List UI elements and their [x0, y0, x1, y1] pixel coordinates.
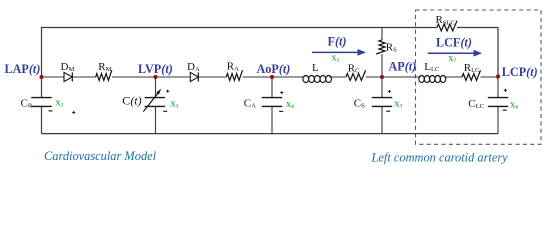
capacitor C_A	[262, 97, 282, 99]
wire: bottom rail	[42, 133, 499, 135]
diode D_M	[64, 72, 72, 81]
C_A plus	[280, 92, 283, 94]
C_A minus	[279, 110, 283, 112]
C(t) minus	[163, 110, 167, 112]
svg-text:C(t): C(t)	[122, 94, 141, 108]
C_LC minus	[503, 109, 507, 111]
wire: R_M to LVP to D_A	[112, 76, 190, 78]
C(t) plus	[166, 90, 169, 92]
wire: R_S top lead	[381, 28, 383, 41]
wire: AoP node down to C_A	[271, 77, 273, 98]
svg-text:F(t): F(t)	[328, 34, 347, 48]
wire: main row LAP to D_M	[42, 76, 65, 78]
wire: AP node down to C_S	[381, 77, 383, 98]
node LAP	[39, 75, 43, 79]
diode D_A	[190, 72, 198, 81]
resistor R_M	[96, 70, 112, 80]
flow arrow LCF(t)	[428, 52, 475, 54]
svg-text:LCF(t): LCF(t)	[436, 35, 472, 49]
C_LC plus	[504, 89, 507, 91]
node LCP	[496, 74, 500, 78]
wire: R_A to AoP to L	[243, 76, 305, 78]
wire: L_LC to R_LC	[444, 76, 462, 78]
wire: D_A to R_A	[198, 76, 226, 78]
wire: LCP node down to C_LC	[497, 77, 499, 98]
resistor R_C	[346, 70, 366, 80]
node AoP	[270, 75, 274, 79]
inductor L_LC	[419, 76, 425, 83]
svg-text:Cardiovascular Model: Cardiovascular Model	[44, 149, 157, 163]
svg-text:AoP(t): AoP(t)	[257, 62, 291, 76]
inductor L	[303, 76, 309, 83]
wire: D_M to R_M	[72, 76, 95, 78]
resistor R_A	[226, 70, 242, 80]
svg-text:AP(t): AP(t)	[389, 59, 417, 73]
C_R minus	[49, 110, 53, 112]
C_R plus	[72, 111, 75, 113]
capacitor C_S	[372, 97, 392, 99]
capacitor C_LC	[488, 97, 508, 99]
C_S minus	[386, 110, 390, 112]
variable capacitor C(t)	[145, 97, 165, 99]
capacitor C_R	[31, 97, 51, 99]
svg-text:LAP(t): LAP(t)	[5, 62, 41, 76]
resistor R_LC	[462, 70, 480, 80]
wire: R_S bottom lead to AP node	[381, 54, 383, 77]
wire: top rail right of R_SLC, corner down to LCP node	[457, 28, 498, 78]
wire: LVP node down to C(t)	[155, 77, 157, 98]
node AP	[380, 75, 384, 79]
svg-text:LVP(t): LVP(t)	[138, 62, 173, 76]
resistor R_SLC (top rail)	[437, 21, 457, 31]
wire: C_R bottom to bottom rail	[41, 106, 43, 133]
wire: left branch below LAP node to C_R	[41, 77, 43, 98]
flow arrow F(t)	[312, 51, 359, 53]
wire: R_C to AP to L_LC	[366, 76, 421, 78]
svg-text:L: L	[312, 62, 319, 74]
wire: L to R_C	[329, 76, 346, 78]
svg-text:Left common carotid artery: Left common carotid artery	[371, 151, 509, 165]
svg-text:LCP(t): LCP(t)	[502, 65, 538, 79]
C(t) arrow	[143, 93, 158, 111]
resistor R_S (vertical)	[376, 40, 385, 54]
C_S plus	[388, 90, 391, 92]
wire: R_LC to LCP node	[481, 76, 499, 78]
dashed box: Left common carotid artery region	[416, 10, 542, 144]
node LVP	[153, 75, 157, 79]
wire: top rail	[42, 28, 438, 78]
